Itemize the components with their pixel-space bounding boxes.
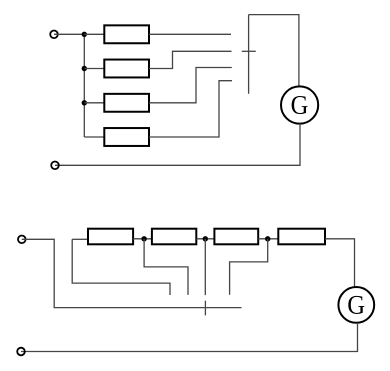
wire G1 to terminal A2: [55, 124, 300, 166]
node dot junction R5-R6: [141, 236, 146, 241]
galvanometer G2 circle: [338, 287, 374, 323]
resistor R2: [104, 60, 149, 78]
resistor R5: [88, 229, 133, 245]
galvanometer G2 label: [348, 296, 364, 314]
node dot junction R6-R7: [203, 236, 208, 241]
terminal B1 (left): [18, 236, 26, 244]
switch S2 wiper tick: [204, 301, 206, 316]
wire R7 to R8: [258, 238, 278, 240]
wire R5 to R6: [133, 238, 152, 240]
wire switch S1 to galvanometer G1: [249, 15, 299, 87]
resistor R7: [214, 229, 258, 245]
node dot junction R7-R8: [265, 236, 270, 241]
terminal A2 (bottom of top circuit): [51, 162, 59, 170]
galvanometer G1 circle: [281, 86, 318, 123]
galvanometer G1 label: [292, 96, 308, 114]
wire R8 to galvanometer G2: [325, 239, 355, 287]
node dot junction bus-R1: [82, 32, 87, 37]
resistor R4: [104, 128, 149, 146]
terminal A1 (top-left): [50, 31, 58, 39]
wire tap A to resistor R5: [72, 238, 88, 240]
terminal B2 (bottom-left): [17, 348, 25, 356]
wire bus to R3: [84, 102, 104, 104]
wire G2 to terminal B2: [21, 323, 358, 352]
wire bus vertical: [83, 34, 85, 137]
switch S1 pole bar: [248, 15, 250, 94]
wire bus to R2: [84, 68, 104, 70]
wire tap A to contact 1: [72, 239, 170, 295]
resistor R1: [104, 25, 149, 43]
wire bus to R1: [84, 33, 104, 35]
wire terminal A1 to bus: [54, 33, 84, 35]
wire R6 to R7: [196, 238, 214, 240]
switch S1 wiper tick: [242, 50, 256, 52]
wire tap C to contact 3: [204, 239, 206, 295]
resistor R6: [152, 229, 196, 245]
resistor R3: [104, 94, 149, 112]
node dot junction bus-R3: [82, 100, 87, 105]
wire tap B to contact 2: [144, 239, 188, 295]
wire R2 to contact 2: [149, 51, 232, 68]
wire tap D to contact 4: [230, 239, 268, 295]
wire R4 to contact 4: [149, 81, 232, 137]
wire R3 to contact 3: [149, 68, 232, 103]
node dot junction bus-R2: [82, 66, 87, 71]
wire R1 to contact 1: [149, 33, 231, 35]
resistor R8: [278, 229, 325, 245]
wire terminal B1 to switch S2 pole: [22, 239, 242, 307]
wire bus to R4: [84, 136, 104, 138]
